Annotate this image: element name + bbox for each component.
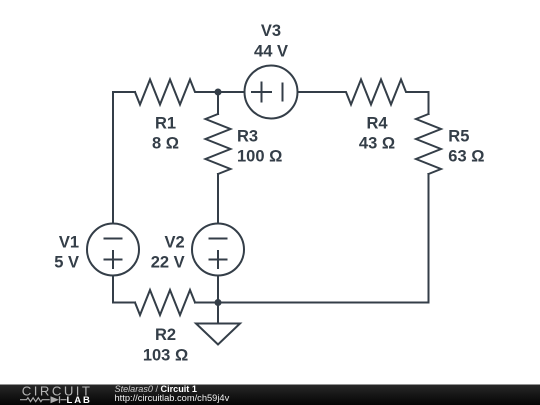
svg-text:R3: R3: [237, 128, 258, 146]
svg-text:8 Ω: 8 Ω: [152, 135, 179, 153]
svg-text:44 V: 44 V: [254, 43, 288, 61]
svg-text:63 Ω: 63 Ω: [448, 148, 484, 166]
svg-text:V2: V2: [165, 233, 185, 251]
svg-text:5 V: 5 V: [54, 253, 79, 271]
svg-text:R2: R2: [155, 326, 176, 344]
svg-text:R1: R1: [155, 115, 176, 133]
svg-text:103 Ω: 103 Ω: [143, 346, 188, 364]
svg-text:R5: R5: [448, 128, 469, 146]
svg-text:LAB: LAB: [67, 395, 92, 405]
svg-text:43 Ω: 43 Ω: [359, 135, 395, 153]
svg-text:V3: V3: [261, 22, 281, 40]
svg-text:R4: R4: [366, 115, 388, 133]
svg-text:100 Ω: 100 Ω: [237, 148, 282, 166]
svg-text:22 V: 22 V: [151, 253, 185, 271]
svg-text:http://circuitlab.com/ch59j4v: http://circuitlab.com/ch59j4v: [115, 393, 230, 403]
svg-text:V1: V1: [59, 233, 79, 251]
